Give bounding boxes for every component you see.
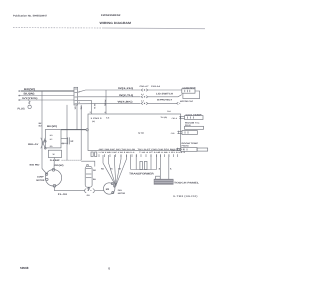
board bottom connector marks — [91, 152, 97, 157]
cap terminals — [87, 164, 90, 189]
svg-text:PLUG: PLUG — [18, 107, 25, 110]
control board box — [88, 114, 181, 151]
svg-text:FWS235RFS2: FWS235RFS2 — [101, 14, 121, 17]
svg-text:BK: BK — [74, 107, 77, 110]
header rule solid right — [103, 27, 205, 30]
comp motor M1 — [45, 168, 61, 187]
overload box — [48, 150, 61, 157]
connector break on W3 — [141, 102, 148, 104]
svg-text:WIRING DIAGRAM: WIRING DIAGRAM — [100, 21, 132, 25]
wire W1 to protector — [148, 89, 182, 91]
svg-text:BK(W): BK(W) — [47, 125, 57, 128]
svg-text:MOTOR: MOTOR — [118, 192, 126, 195]
fan motor feed wire F3 — [115, 155, 116, 186]
svg-text:A: A — [170, 167, 172, 170]
svg-text:BU: BU — [39, 124, 42, 127]
bottom pin stubs — [99, 154, 178, 157]
svg-text:TH-1(B): TH-1(B) — [161, 116, 168, 119]
wire W2 to switch — [148, 95, 182, 97]
svg-text:RD: RD — [93, 169, 96, 172]
connector break end W3 — [177, 102, 180, 104]
plug terminals — [19, 91, 21, 101]
gas temp pins — [179, 116, 184, 119]
wire L2 blue supply — [21, 95, 74, 97]
svg-text:PR-02: PR-02 — [185, 124, 192, 127]
svg-text:BU(W): BU(W) — [24, 92, 35, 95]
svg-text:TRANSFORMER: TRANSFORMER — [129, 172, 154, 175]
svg-text:RD: RD — [79, 107, 82, 110]
relay box — [44, 130, 61, 150]
relay to comp diagonal — [42, 169, 47, 175]
svg-text:BK W: BK W — [93, 104, 96, 109]
svg-text:GN: GN — [87, 194, 91, 197]
transformer secondary wire 2 — [156, 155, 158, 170]
svg-text:6-TB3 (3A-R2): 6-TB3 (3A-R2) — [173, 195, 198, 198]
svg-text:7 H1 8 ST 9 N5 0 N6 1 R1 2 K2: 7 H1 8 ST 9 N5 0 N6 1 R1 2 K2 3 — [139, 151, 185, 154]
fan motor feed wire F2 — [109, 155, 116, 186]
connector break on W2 — [141, 96, 148, 98]
svg-text:YE: YE — [110, 168, 113, 171]
transformer winding 2 — [144, 161, 147, 169]
heavy neutral line — [61, 129, 86, 131]
relay switch contact — [41, 138, 46, 149]
cord clamp — [28, 101, 31, 109]
svg-text:M2: M2 — [106, 188, 110, 191]
noise filter leg NF1 — [66, 105, 68, 160]
fan motor M2 — [104, 182, 116, 194]
gas temp sensor box — [185, 116, 204, 120]
svg-text:NO: NO — [50, 134, 53, 137]
svg-text:A-6: A-6 — [106, 117, 110, 120]
fan motor feed wire F4 — [116, 155, 121, 186]
svg-text:BU: BU — [93, 178, 96, 181]
svg-text:BK: BK — [39, 122, 42, 125]
svg-text:W: W — [53, 153, 55, 156]
transformer base wire — [131, 169, 157, 171]
svg-text:RELAY: RELAY — [28, 143, 39, 146]
svg-text:TOUCH PANEL: TOUCH PANEL — [174, 181, 200, 184]
svg-text:59568: 59568 — [20, 266, 29, 270]
svg-text:0.8MF: 0.8MF — [50, 159, 61, 162]
transformer secondary wire — [150, 155, 152, 170]
svg-text:ROOM TEMP: ROOM TEMP — [182, 142, 199, 145]
svg-text:SP: SP — [70, 140, 73, 143]
connector DE — [156, 176, 161, 179]
svg-text:LID SWITCH: LID SWITCH — [156, 92, 173, 95]
fan motor feed wire F5 — [116, 155, 127, 186]
svg-text:FAN: FAN — [118, 189, 123, 192]
svg-text:4WC 3W6 3WC 3W1 TH2 3LS 4W: 4WC 3W6 3WC 3W1 TH2 3LS 4W — [99, 148, 136, 151]
svg-text:(3): (3) — [62, 142, 65, 145]
fan motor feed wire F1 — [103, 155, 116, 186]
relay drop wire — [41, 91, 43, 169]
earth box — [197, 148, 208, 151]
svg-text:CN1-A: CN1-A — [172, 117, 178, 120]
svg-text:RD: RD — [50, 145, 53, 148]
svg-text:CN1-A7: CN1-A7 — [140, 85, 150, 88]
run cap feed dashed — [62, 159, 82, 161]
touch panel wire S — [159, 155, 161, 180]
room sensor box — [182, 131, 197, 135]
svg-text:CN3: CN3 — [171, 132, 175, 135]
svg-text:Publication No. 5995518947: Publication No. 5995518947 — [13, 14, 48, 17]
SP capacitor leads — [61, 137, 69, 144]
photo sensor pins — [176, 148, 180, 151]
svg-text:PHOTO: PHOTO — [182, 145, 190, 148]
svg-text:A-1: A-1 — [141, 93, 144, 96]
touch panel wire A — [168, 155, 170, 180]
svg-text:1 CN2 2: 1 CN2 2 — [91, 117, 103, 120]
defrost box — [185, 126, 204, 129]
noise filter leg NF2 — [76, 105, 78, 130]
svg-text:MOTOR CAP: MOTOR CAP — [180, 100, 194, 103]
inline connector GN — [85, 189, 95, 193]
svg-text:CN4: CN4 — [167, 110, 171, 113]
wire W3 lower run — [78, 102, 141, 104]
overload to motor wire — [53, 158, 55, 170]
transformer primary wire 2 — [135, 155, 137, 170]
photo sensor box — [181, 148, 197, 152]
svg-text:BK: BK — [118, 168, 121, 171]
wire W1 top run — [78, 90, 141, 92]
svg-text:6: 6 — [108, 266, 110, 270]
svg-text:CN1-A4: CN1-A4 — [151, 85, 161, 88]
svg-text:BK(W): BK(W) — [24, 88, 35, 91]
run capacitor — [85, 166, 92, 187]
room sensor pins — [177, 131, 182, 134]
svg-text:TH1 3LST CN5 CN6 PR1 BK2 GY3 S: TH1 3LST CN5 CN6 PR1 BK2 GY3 S — [138, 148, 186, 151]
svg-text:NC: NC — [50, 138, 53, 141]
wire W2 middle run — [78, 96, 141, 98]
svg-text:(W): (W) — [92, 120, 95, 123]
connector break on W1 — [141, 89, 148, 91]
svg-text:1 CW 2 WB 3 WC 4 W1 5 H2 6 LS: 1 CW 2 WB 3 WC 4 W1 5 H2 6 LS — [98, 151, 135, 154]
svg-text:MOTOR: MOTOR — [36, 179, 45, 182]
vertical drop V2 — [78, 100, 92, 114]
svg-text:BS RD: BS RD — [30, 163, 41, 166]
svg-text:ROOM T.C: ROOM T.C — [185, 121, 200, 124]
svg-text:W(3,2H): W(3,2H) — [118, 87, 133, 90]
vertical drop V1 — [105, 90, 107, 114]
svg-text:W.PROTECT: W.PROTECT — [157, 99, 173, 102]
svg-text:W(4,BK): W(4,BK) — [118, 100, 133, 103]
svg-text:A-4: A-4 — [141, 100, 144, 103]
connector CN-P column — [74, 87, 78, 105]
wire W3 to motor cap — [148, 102, 177, 104]
noise filter leg NF3 — [80, 105, 82, 160]
transformer primary wire — [130, 155, 132, 170]
comp bottom wire — [55, 187, 85, 191]
svg-text:PR BU: PR BU — [103, 100, 106, 107]
svg-text:COMP: COMP — [37, 176, 44, 179]
header rule dashed left — [13, 27, 103, 29]
run cap corner wire — [81, 161, 95, 166]
svg-text:RD(W): RD(W) — [55, 164, 64, 167]
junction node — [86, 129, 88, 131]
transformer winding 1 — [140, 161, 143, 169]
connector to fan wire — [95, 190, 104, 192]
touch panel display — [154, 179, 173, 184]
wire L3 ground — [21, 99, 74, 101]
svg-text:FL-94: FL-94 — [58, 193, 68, 196]
protector loop wire — [183, 91, 200, 99]
cap bottom wire — [88, 187, 90, 191]
svg-text:G/Y(YE/G): G/Y(YE/G) — [22, 97, 38, 100]
wire L1 black supply — [21, 90, 74, 92]
svg-text:W(2,TH): W(2,TH) — [119, 94, 133, 97]
svg-text:NTC: NTC — [138, 131, 144, 135]
svg-text:RD: RD — [101, 168, 104, 171]
protector box — [182, 89, 195, 93]
